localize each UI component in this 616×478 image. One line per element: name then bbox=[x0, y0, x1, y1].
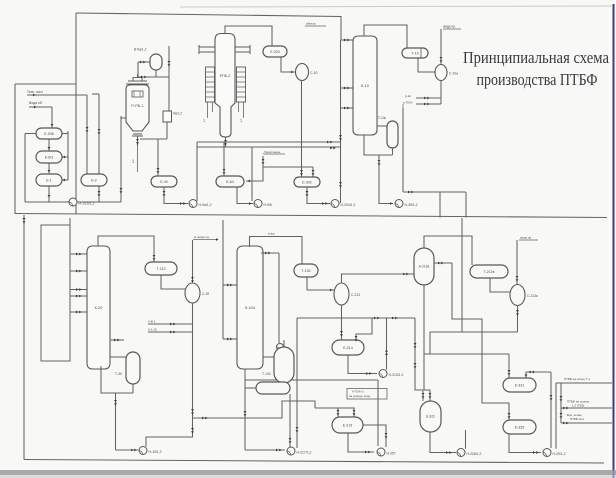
separator C-213a bbox=[510, 285, 525, 306]
wire drop x297 bbox=[296, 318, 298, 448]
vessel E-206 bbox=[36, 128, 62, 139]
wire E-331 feed bbox=[508, 354, 510, 378]
svg-text:на усредн. конд.: на усредн. конд. bbox=[349, 394, 371, 398]
wire drop to E-64 bbox=[223, 142, 225, 176]
vessel E-6/3 bbox=[36, 151, 62, 163]
wire riser x462 from header bbox=[461, 218, 463, 332]
svg-text:к-т: к-т bbox=[131, 159, 135, 163]
wire A-213a side bbox=[434, 262, 452, 264]
svg-text:абгазы: абгазы bbox=[306, 22, 317, 26]
wire riser x403 bbox=[402, 108, 404, 192]
reactor R-RB-1 bbox=[126, 78, 149, 137]
svg-text:Н-257: Н-257 bbox=[387, 452, 396, 456]
wire E-2 bottom bbox=[98, 186, 100, 202]
pump N-213/1,2 bbox=[379, 370, 387, 378]
wire RPB-2 overhead bbox=[225, 26, 272, 46]
wire inter-vessel drops bbox=[48, 139, 50, 151]
wire A-213a bottoms bbox=[423, 285, 425, 390]
pump N-9a/1,2 bbox=[189, 200, 197, 208]
wire to C-10a top bbox=[440, 29, 442, 65]
wire drop to box 9a bbox=[168, 46, 170, 111]
wire drop x551 bbox=[550, 372, 552, 448]
pump N-29/1,2 bbox=[543, 449, 551, 457]
wire C-213 to A-213a bbox=[342, 274, 415, 283]
wire drop to pump N-257 bbox=[377, 380, 379, 446]
wire K-10 vapor to T-10k bbox=[377, 125, 387, 127]
wire E-64 bottoms bbox=[237, 187, 253, 204]
svg-text:К-20: К-20 bbox=[95, 306, 103, 310]
wire E-203 to C-10 bbox=[281, 57, 296, 72]
wire header y408 to E-219 bbox=[315, 407, 355, 409]
wire feed bus x340 bbox=[340, 40, 342, 203]
svg-text:Н-9/5: Н-9/5 bbox=[264, 203, 272, 207]
svg-text:Н-29/1,2: Н-29/1,2 bbox=[553, 452, 566, 456]
wire left rail bbox=[25, 133, 36, 135]
vessel E-322 bbox=[420, 401, 441, 432]
svg-text:Т-130: Т-130 bbox=[301, 269, 310, 273]
separator C-10 bbox=[296, 64, 309, 81]
svg-text:А-213а: А-213а bbox=[419, 265, 430, 269]
wire reflux header y318 bbox=[297, 317, 415, 319]
pump N-204/1,2 bbox=[331, 200, 339, 208]
pump N-10/1,2 bbox=[139, 447, 147, 455]
RPB-2 left nozzles bbox=[199, 46, 215, 48]
wire E-331 return bbox=[526, 372, 551, 378]
vessel E-302 bbox=[294, 177, 320, 187]
svg-text:С-2б: С-2б bbox=[202, 292, 209, 296]
svg-text:б-ПОА-3: б-ПОА-3 bbox=[352, 390, 364, 394]
wire to pump N-3b bbox=[379, 155, 393, 204]
wire riser x121 bbox=[120, 116, 122, 202]
separator C-10a bbox=[435, 65, 447, 81]
svg-text:б-В-1: б-В-1 bbox=[148, 320, 156, 324]
wire T-130 to C-213 bbox=[307, 277, 334, 290]
svg-text:К-104: К-104 bbox=[245, 306, 255, 310]
svg-text:Принципиальная схема: Принципиальная схема bbox=[463, 48, 610, 67]
wire transfer y418 bbox=[193, 401, 316, 418]
svg-text:В-9а/1,2: В-9а/1,2 bbox=[134, 48, 147, 52]
reboiler drum bbox=[256, 382, 290, 394]
wire V-9a inlet bbox=[138, 61, 150, 63]
pump small bbox=[277, 344, 284, 351]
svg-text:жидк.пр.: жидк.пр. bbox=[520, 236, 532, 240]
vessel E-2 bbox=[81, 174, 107, 186]
wire E-335 feed bbox=[482, 332, 509, 420]
wire reactor top stub bbox=[137, 74, 139, 78]
svg-text:Е-214: Е-214 bbox=[343, 346, 353, 350]
wire C-2b downcomer to pump N-10 bbox=[146, 418, 193, 447]
wire nitrogen drop bbox=[86, 95, 88, 174]
pump N-3b/1,2 bbox=[395, 200, 403, 208]
svg-text:9а/1,2: 9а/1,2 bbox=[173, 112, 182, 116]
wire right rail bbox=[67, 131, 69, 180]
wire E-335 bottoms bbox=[509, 434, 541, 453]
wire transfer y380 bbox=[245, 379, 378, 381]
vessel E-1 bbox=[36, 174, 62, 186]
column RPB-2 bbox=[215, 34, 235, 138]
wire T-113 to C-2b bbox=[161, 275, 185, 289]
svg-text:ПТБФ на склад, Т-к: ПТБФ на склад, Т-к bbox=[564, 377, 591, 381]
wire E-214 recycle elbow bbox=[356, 318, 372, 341]
pump N-217/1,2 bbox=[287, 447, 295, 455]
wire C-213a bottoms bbox=[517, 306, 519, 333]
svg-text:К-10: К-10 bbox=[361, 84, 369, 88]
column K-20 bbox=[87, 246, 110, 369]
box 9a/1,2 bbox=[163, 111, 172, 122]
column K-10 bbox=[353, 36, 377, 135]
svg-text:Н-3б/1,2: Н-3б/1,2 bbox=[405, 203, 418, 207]
wire x415 to E-322 bbox=[415, 318, 423, 401]
wire drop to E-40 bbox=[157, 139, 159, 176]
svg-text:б-1-15: б-1-15 bbox=[148, 328, 157, 332]
svg-text:Е-206: Е-206 bbox=[44, 132, 54, 136]
wire E-219 bottoms bbox=[348, 433, 374, 452]
drum T-212v bbox=[470, 265, 508, 278]
scan edge artifacts bbox=[180, 6, 612, 7]
box utility bbox=[41, 225, 70, 361]
svg-text:р-ПОА: р-ПОА bbox=[403, 101, 413, 105]
svg-text:Н-226/1,2: Н-226/1,2 bbox=[467, 452, 482, 456]
wire K-10 overhead bbox=[364, 25, 407, 48]
wire K-104 bottoms bbox=[244, 369, 246, 450]
svg-text:Н-204/1,2: Н-204/1,2 bbox=[341, 203, 356, 207]
svg-text:Вода об.: Вода об. bbox=[29, 101, 43, 105]
svg-text:Укрепление: Укрепление bbox=[264, 150, 281, 154]
adsorber A-213a bbox=[414, 248, 434, 285]
svg-text:Т-113: Т-113 bbox=[156, 267, 165, 271]
wire E-214 bottoms bbox=[348, 355, 377, 374]
wire C-10a bottoms bbox=[440, 81, 442, 105]
svg-text:Е-1: Е-1 bbox=[46, 178, 52, 182]
svg-text:Е-6/3: Е-6/3 bbox=[45, 155, 54, 159]
svg-text:Н-1/16/1,2: Н-1/16/1,2 bbox=[79, 202, 95, 206]
wire header y167 to E-302 bbox=[263, 166, 313, 168]
wire pump N-213 riser bbox=[386, 318, 388, 370]
svg-text:Т-30: Т-30 bbox=[115, 372, 122, 376]
vessel E-203 bbox=[263, 46, 287, 57]
wire reboiler to pump N-217 bbox=[289, 394, 291, 447]
RPB-2 left heater ladder bbox=[206, 67, 215, 102]
wire header y354 bbox=[424, 353, 509, 355]
drum T-140 bbox=[274, 347, 294, 383]
wire pump N-226 riser bbox=[465, 430, 467, 449]
vessel E-219 bbox=[332, 417, 363, 433]
wire C-2b bottoms bbox=[192, 303, 194, 418]
svg-text:С-213а: С-213а bbox=[527, 294, 538, 298]
vessel E-64 bbox=[216, 176, 244, 187]
svg-text:Е-302: Е-302 bbox=[302, 180, 312, 184]
vessel E-335 bbox=[503, 420, 536, 434]
wire left frame bbox=[15, 83, 76, 85]
svg-text:Н-217/1,2: Н-217/1,2 bbox=[297, 451, 312, 455]
wire header y142 bbox=[197, 141, 341, 143]
wire E-1 bottom bbox=[48, 186, 50, 202]
wire C-213 bottoms to E-214 bbox=[341, 305, 343, 340]
svg-text:Е-331: Е-331 bbox=[515, 383, 525, 387]
column K-104 bbox=[237, 246, 263, 369]
wire C-2b vent bbox=[192, 240, 194, 283]
wire E-40 bottoms bbox=[164, 187, 188, 204]
svg-text:ПТБФ н/сл: ПТБФ н/сл bbox=[570, 417, 585, 421]
pump N-9/5 bbox=[254, 200, 262, 208]
drum T-10k bbox=[387, 121, 398, 148]
box corner bbox=[465, 192, 467, 218]
svg-text:Н-9а/1,2: Н-9а/1,2 bbox=[199, 203, 212, 207]
pump N-226/1,2 bbox=[457, 449, 465, 457]
svg-text:Е-322: Е-322 bbox=[426, 415, 435, 419]
vessel E-40 bbox=[151, 176, 177, 187]
wire water to E-206 bbox=[51, 107, 53, 128]
wire box outlet bbox=[166, 122, 168, 139]
wire A-213a overhead bbox=[424, 236, 472, 265]
label b-POA box bbox=[347, 389, 387, 400]
svg-text:С-213: С-213 bbox=[351, 293, 360, 297]
wire header y77 bbox=[138, 76, 169, 78]
RPB-2 right nozzles bbox=[235, 46, 250, 48]
svg-text:производства ПТБФ: производства ПТБФ bbox=[477, 70, 598, 89]
svg-text:Е-2: Е-2 bbox=[91, 178, 97, 182]
wire to pump N-10 bbox=[115, 393, 117, 450]
svg-text:жидк.пр.: жидк.пр. bbox=[443, 25, 456, 29]
wire second drop to E-2 bbox=[98, 94, 100, 174]
wire reboiler connections bbox=[263, 356, 274, 358]
wire x561 bbox=[560, 383, 562, 423]
wire bypass x279 bbox=[278, 253, 280, 343]
svg-text:1,2 (ТЗФ): 1,2 (ТЗФ) bbox=[572, 404, 584, 408]
wire RPB-2 bottoms bbox=[225, 137, 227, 147]
drum T-30 bbox=[126, 352, 140, 384]
wire header y147 bbox=[197, 146, 341, 148]
svg-text:Т-10к: Т-10к bbox=[378, 116, 387, 120]
svg-text:Т-10: Т-10 bbox=[411, 51, 418, 55]
wire T-10 to C-10a bbox=[418, 58, 436, 72]
svg-text:ж.фр.: ж.фр. bbox=[268, 232, 276, 236]
vessel E-214 bbox=[332, 340, 364, 355]
svg-text:Е-40: Е-40 bbox=[160, 180, 168, 184]
wire C-10 bottoms to E-302 bbox=[301, 81, 303, 178]
svg-text:Е-64: Е-64 bbox=[226, 180, 234, 184]
svg-text:Е-219: Е-219 bbox=[343, 423, 353, 427]
wire K-104 overhead bbox=[250, 237, 303, 265]
wire K-10 bottoms bbox=[364, 135, 393, 155]
separator C-213 bbox=[334, 283, 349, 305]
wire V-9a bottom to header bbox=[155, 70, 157, 77]
wire riser to pump N-9a bbox=[196, 142, 198, 201]
wire main recycle header bbox=[15, 214, 607, 218]
svg-text:Е-335: Е-335 bbox=[515, 425, 525, 429]
vessel E-331 bbox=[503, 378, 536, 392]
wire reactor bottom outlet bbox=[137, 136, 139, 146]
svg-text:С-10а: С-10а bbox=[449, 72, 458, 76]
wire feed rail K-20 bbox=[69, 218, 71, 313]
wire K-104 feed rail bbox=[222, 220, 224, 339]
svg-text:Е-203: Е-203 bbox=[270, 50, 280, 54]
wire to C-213a bbox=[516, 240, 518, 285]
drum T-10 bbox=[402, 48, 428, 58]
pump N-1/16 bbox=[69, 198, 77, 206]
wire T-212v to C-213a bbox=[490, 278, 511, 292]
svg-text:Р-РБ-1: Р-РБ-1 bbox=[131, 104, 143, 108]
wire drop x252 to pump bbox=[251, 147, 253, 201]
wire bottom frame bbox=[23, 215, 25, 460]
wire K-20 bottoms loop bbox=[101, 366, 133, 393]
drum T-130 bbox=[294, 264, 318, 277]
vessel V-9a/1,2 bbox=[150, 54, 162, 70]
RPB-2 right heater ladder bbox=[237, 67, 246, 102]
svg-text:ж.нефр.сд.: ж.нефр.сд. bbox=[194, 235, 210, 239]
wire K-104 side stub bbox=[261, 252, 279, 254]
svg-text:РПБ-2: РПБ-2 bbox=[220, 74, 231, 78]
pump N-257 bbox=[377, 448, 385, 456]
wire top border bbox=[76, 13, 341, 40]
svg-text:р-Ш: р-Ш bbox=[405, 94, 411, 98]
svg-text:Техн. азот: Техн. азот bbox=[27, 90, 43, 94]
svg-text:Т-140: Т-140 bbox=[262, 372, 271, 376]
wire transfer y192 bbox=[403, 191, 466, 193]
svg-text:Н-213/1,2: Н-213/1,2 bbox=[389, 373, 404, 377]
svg-text:Т-212в: Т-212в bbox=[483, 270, 494, 274]
drum T-113 bbox=[145, 262, 177, 275]
wire E-322 bottoms bbox=[430, 432, 456, 453]
wire E-219 side bbox=[363, 425, 386, 447]
wire K-20 overhead bbox=[98, 236, 154, 262]
wire pump N-29 riser bbox=[555, 383, 557, 449]
wire bottoms header bbox=[25, 201, 121, 203]
svg-text:С-10: С-10 bbox=[310, 71, 317, 75]
wire E-302 bottoms bbox=[307, 187, 330, 204]
svg-text:Н-10/1,2: Н-10/1,2 bbox=[149, 450, 162, 454]
separator C-2b bbox=[185, 283, 200, 303]
wire K-20 side to T-30 bbox=[110, 356, 126, 358]
